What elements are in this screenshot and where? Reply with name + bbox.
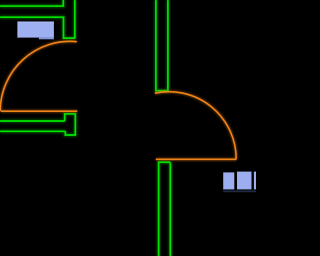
blue fixture top-left body (18, 22, 54, 38)
door layer glow (0, 41, 236, 159)
wall layer glow (0, 0, 170, 256)
door layer core (0, 41, 236, 159)
blue square fixture 1 bottom-right (223, 172, 234, 189)
blue square fixture 2 bottom-right (237, 172, 252, 190)
counter shadow line under squares (223, 190, 256, 192)
blue fixture top-left sill step (39, 38, 54, 40)
blue fixture top-left highlight edge (18, 22, 54, 38)
blue square fixture 3 bottom-right (254, 172, 259, 190)
wall layer core (0, 0, 170, 256)
